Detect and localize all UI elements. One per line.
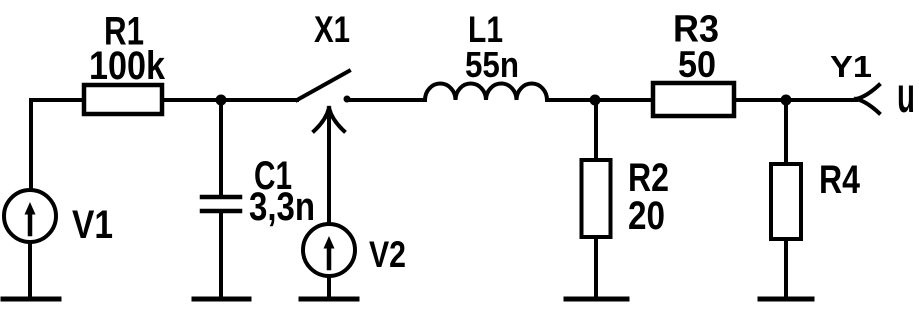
wire: V1 top to R1 left — [31, 100, 82, 189]
svg-text:3,3n: 3,3n — [249, 185, 315, 229]
svg-text:R4: R4 — [819, 158, 861, 202]
wire: switch to L1 — [347, 98, 425, 102]
switch X1 blade — [297, 71, 349, 100]
voltage source V2 — [303, 224, 355, 297]
svg-text:u: u — [897, 67, 915, 123]
wire: R3 to probe Y1 — [736, 98, 856, 102]
wire: L1 to R3 — [547, 98, 653, 102]
svg-text:20: 20 — [628, 194, 665, 238]
svg-text:V2: V2 — [369, 234, 406, 275]
switch X1 right contact dot — [344, 96, 351, 103]
wire: R1 right to switch left contact — [162, 98, 297, 102]
ground (V2) — [301, 297, 357, 302]
ground (R4) — [760, 297, 812, 302]
probe Y1 — [856, 85, 879, 113]
svg-text:V1: V1 — [72, 203, 113, 247]
resistor R3 — [653, 83, 734, 116]
ground (C1) — [194, 297, 249, 302]
ground (V1) — [3, 297, 59, 302]
svg-text:50: 50 — [678, 44, 716, 85]
inductor L1 — [425, 84, 547, 101]
svg-text:100k: 100k — [89, 44, 166, 88]
voltage source V2 control arrow — [314, 108, 344, 224]
svg-text:X1: X1 — [314, 9, 350, 50]
resistor R4 — [771, 100, 801, 297]
node A junction dot — [216, 95, 227, 106]
resistor R1 — [84, 85, 162, 114]
ground (R2) — [566, 297, 627, 302]
node B junction dot — [590, 95, 601, 106]
svg-text:Y1: Y1 — [830, 49, 872, 84]
voltage source V1 — [4, 190, 56, 297]
resistor R2 — [582, 100, 611, 297]
capacitor C1 — [202, 100, 240, 297]
svg-text:55n: 55n — [465, 44, 519, 85]
node C junction dot — [781, 95, 792, 106]
